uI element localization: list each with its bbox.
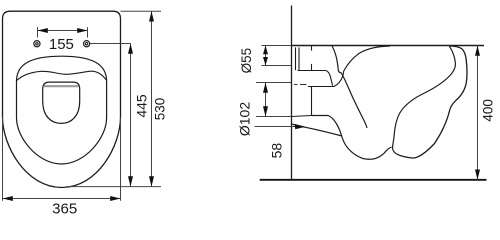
seat outer contour bbox=[17, 56, 107, 164]
leader arrow to outlet pipe bbox=[255, 126, 298, 128]
dim 400 arrow up bbox=[475, 46, 480, 56]
dim 530 arrow down bbox=[149, 176, 154, 186]
dim d102 leader top bbox=[256, 82, 292, 84]
soil pipe top edge dashes bbox=[294, 84, 307, 86]
leader from right hole to 445 dim bbox=[90, 43, 131, 45]
dim 445 arrow down bbox=[128, 176, 133, 186]
dim 155 line bbox=[38, 30, 88, 32]
gray band near egg top bbox=[44, 85, 78, 87]
dim d55 leader bottom bbox=[262, 65, 292, 67]
dim d55 arrow down bbox=[263, 57, 268, 66]
bowl opening egg shape bbox=[43, 82, 80, 123]
mounting hole right bbox=[84, 41, 90, 47]
dim 155 arrow left bbox=[38, 28, 48, 33]
dim 530 arrow up bbox=[149, 11, 154, 21]
svg-text:155: 155 bbox=[49, 36, 74, 53]
svg-text:Ø55: Ø55 bbox=[239, 48, 254, 74]
svg-text:365: 365 bbox=[52, 200, 77, 216]
dim 365 extension right bbox=[120, 117, 122, 201]
dim 400 arrow down bbox=[475, 170, 480, 180]
fixture top line with extension to 400 dim bbox=[292, 45, 485, 47]
dim d55 arrow up bbox=[263, 46, 268, 55]
soil pipe bottom edge bbox=[292, 116, 312, 117]
dim 155 extension line left bbox=[37, 27, 39, 37]
bowl front curve C bbox=[341, 73, 367, 128]
dim d102 arrow down bbox=[263, 106, 268, 116]
dim 530 line bbox=[151, 11, 153, 186]
underside diagonal bbox=[292, 124, 342, 136]
soil pipe front vertical bbox=[311, 87, 313, 116]
svg-text:400: 400 bbox=[481, 99, 496, 122]
bottom extension line for 445 530 bbox=[66, 186, 161, 188]
sump profile from pipe ledge bbox=[312, 116, 392, 160]
wall line bbox=[291, 6, 293, 180]
mounting hole left bbox=[34, 41, 40, 47]
seat rear edge bbox=[332, 46, 341, 73]
leader arrowhead bbox=[295, 124, 306, 129]
wc top view outer outline bbox=[3, 11, 121, 187]
dim d102 arrow up bbox=[263, 83, 268, 93]
dim 365 arrow right bbox=[110, 196, 120, 201]
dim 155 extension line right bbox=[87, 27, 89, 37]
dim 155 arrow right bbox=[77, 28, 87, 33]
dim d102 leader bottom bbox=[256, 116, 292, 118]
dim 365 arrow left bbox=[3, 196, 13, 201]
dim 445 arrow up bbox=[128, 44, 133, 54]
dim 445 line bbox=[130, 44, 132, 187]
dim 365 line bbox=[3, 198, 121, 200]
seat top rise to rim bbox=[344, 46, 390, 71]
floor datum line bbox=[260, 179, 487, 181]
inner back J curve bbox=[393, 46, 456, 158]
dim d55 line bbox=[265, 46, 267, 66]
soil pipe top edge rising to rim cusp bbox=[308, 71, 344, 87]
dim d55 leader top bbox=[262, 45, 292, 47]
outer right edge bbox=[413, 46, 467, 158]
flush elbow corner diagonal bbox=[326, 71, 333, 86]
svg-text:445: 445 bbox=[134, 94, 150, 118]
top extension line to 530 dim bbox=[121, 10, 162, 12]
svg-text:58: 58 bbox=[269, 143, 285, 159]
flush pipe block bbox=[296, 46, 326, 71]
dim 365 extension overshoot left bbox=[2, 117, 4, 201]
dim d102 line bbox=[265, 83, 267, 117]
svg-text:530: 530 bbox=[153, 98, 168, 121]
svg-text:Ø102: Ø102 bbox=[237, 102, 253, 136]
seat lid seam wavy line bbox=[17, 71, 107, 80]
dim 400 line bbox=[477, 46, 479, 180]
